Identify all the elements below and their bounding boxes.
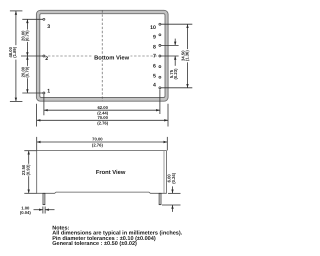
svg-text:2: 2	[45, 56, 48, 62]
pin 5	[159, 76, 161, 78]
dim 6.00 (0.24) pin length	[162, 172, 181, 212]
title Bottom View	[93, 54, 131, 61]
tick module bottom (48 dim)	[10, 100, 23, 102]
svg-text:8: 8	[153, 44, 156, 50]
front view case outline	[37, 151, 167, 194]
svg-text:3: 3	[47, 24, 50, 30]
extension line module right edge down	[167, 104, 169, 127]
tick pin1 level	[22, 92, 44, 94]
dim 20.00 (0.79) lower	[20, 56, 31, 93]
svg-text:4: 4	[153, 82, 156, 88]
dim 23.50 (0.93)	[21, 151, 36, 194]
horizontal dashed centerline	[44, 55, 160, 57]
svg-text:(0.23): (0.23)	[173, 68, 178, 80]
svg-text:7: 7	[153, 54, 156, 60]
svg-text:6: 6	[153, 64, 156, 70]
dim 62.00 (2.44)	[44, 105, 160, 116]
svg-text:(0.93): (0.93)	[25, 164, 30, 176]
dim 70.00 (2.76) above front view	[37, 137, 168, 148]
svg-text:General tolerance : ±0.50 (±0.: General tolerance : ±0.50 (±0.02)	[52, 240, 137, 247]
pin 4	[159, 87, 161, 89]
svg-text:Bottom View: Bottom View	[94, 54, 129, 61]
pin 9	[159, 34, 161, 36]
svg-text:5: 5	[153, 73, 156, 79]
tick pin3 level	[22, 18, 44, 20]
tick pin10 level	[160, 23, 192, 25]
pin 3	[43, 18, 45, 20]
svg-text:10: 10	[150, 25, 156, 31]
svg-text:9: 9	[153, 35, 156, 41]
extension line pin4 column down	[159, 89, 161, 114]
pin 1	[43, 92, 45, 94]
svg-text:70.00: 70.00	[92, 137, 103, 142]
svg-text:(0.24): (0.24)	[171, 172, 176, 184]
extension line pin1 column down	[43, 94, 45, 115]
svg-text:(0.79): (0.79)	[25, 66, 30, 78]
bottom view case lip (inner)	[40, 14, 165, 98]
dim 5.75 (0.23)	[169, 39, 178, 80]
svg-text:(0.79): (0.79)	[25, 30, 30, 42]
pin 6	[159, 66, 161, 68]
bottom view case outline (outer)	[36, 10, 168, 101]
front view right pin	[159, 193, 161, 204]
dim 48.00 (1.89)	[8, 11, 19, 102]
svg-text:(0.04): (0.04)	[20, 210, 32, 215]
pin 2	[43, 55, 45, 57]
extension lines front view 70 dim	[36, 137, 38, 151]
svg-text:70.00: 70.00	[97, 115, 108, 120]
pin 10	[159, 23, 161, 25]
pin 8	[159, 44, 161, 46]
front view left pin	[43, 193, 45, 204]
dim 34.50 (1.36)	[180, 24, 191, 88]
svg-text:62.00: 62.00	[97, 105, 108, 110]
svg-text:(1.36): (1.36)	[185, 50, 190, 62]
svg-text:1: 1	[47, 89, 50, 95]
notes	[52, 225, 183, 247]
vertical dashed centerline	[101, 10, 103, 101]
tick pin8 level	[160, 44, 179, 46]
tick pin2 level (centerline extension left)	[21, 55, 44, 57]
dim 70.00 (2.76) below bottom view	[37, 115, 168, 126]
svg-text:(2.76): (2.76)	[92, 142, 104, 147]
tick module top (48 dim)	[10, 10, 23, 12]
tick pin4 level	[160, 87, 192, 89]
svg-text:Front View: Front View	[96, 169, 126, 176]
tick pin7 level (centerline extension right)	[160, 55, 179, 57]
svg-text:(1.89): (1.89)	[12, 46, 17, 58]
svg-text:(2.76): (2.76)	[97, 121, 109, 126]
front view right seam line	[163, 151, 165, 194]
extension line module left edge down	[36, 104, 38, 127]
pin 7	[159, 55, 161, 57]
dim 20.00 (0.79) upper	[20, 19, 31, 56]
dim 1.00 (0.04) pin diameter	[20, 206, 55, 216]
